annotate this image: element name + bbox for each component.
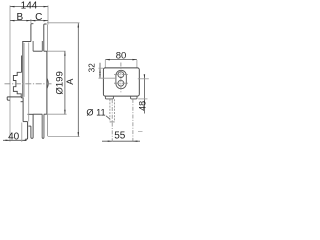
svg-text:Ø 11: Ø 11 xyxy=(86,108,105,118)
pulley: groove right wall top xyxy=(41,41,43,51)
pulley: right outer edge V6 xyxy=(46,51,48,114)
wire: ext 48 bottom xyxy=(138,98,147,100)
svg-text:C: C xyxy=(35,12,42,23)
svg-text:B: B xyxy=(16,12,23,23)
dimension 40 xyxy=(3,139,27,141)
wire: ext of step to dia dim xyxy=(47,50,66,52)
pulley: right flange left edge V5 with top tick xyxy=(44,24,47,51)
hidden hole bottom tick xyxy=(110,121,115,123)
pulley: step H3' bottom right xyxy=(44,113,47,115)
centerline pulley axis xyxy=(5,83,52,85)
bracket left bend xyxy=(7,97,10,100)
dimension B/C line xyxy=(10,20,48,22)
wire: middle extension x=30.9 for B/C xyxy=(30,19,32,24)
hub thin line V2c xyxy=(23,43,25,97)
dimension 32 xyxy=(99,63,101,78)
svg-text:55: 55 xyxy=(114,131,126,142)
svg-text:32: 32 xyxy=(88,63,97,73)
wire: ext 32 bottom xyxy=(99,77,117,79)
bracket plate edge vertical xyxy=(25,122,27,140)
wire: left extension line x=10 xyxy=(9,6,11,142)
hub outer left wall V2a xyxy=(21,56,23,73)
bracket cross edge behind wheel xyxy=(28,113,34,115)
bracket inner step xyxy=(22,97,24,122)
small gray line bottom right xyxy=(138,131,143,133)
wire: ext line x=21.8 bottom xyxy=(21,123,23,142)
centerline hole1 horizontal xyxy=(114,74,128,76)
pulley: right flange right thin edge xyxy=(47,25,49,52)
foot right xyxy=(131,96,137,99)
leader for D11 xyxy=(106,116,110,119)
svg-text:48: 48 xyxy=(137,101,147,111)
wire: ext 80 left xyxy=(104,60,106,68)
svg-text:80: 80 xyxy=(116,50,127,61)
dimension 144 line xyxy=(10,6,48,8)
boss bump on right edge xyxy=(47,78,48,88)
wire: ext line top for A xyxy=(47,22,80,24)
wire: ext of bottom step to dia dim xyxy=(47,113,67,115)
plate outline xyxy=(103,68,139,96)
hub inner wall V2b xyxy=(22,42,24,97)
wire: ext 48 top xyxy=(138,78,149,80)
pulley: left flange inner wall (groove left) xyxy=(32,41,34,51)
svg-text:144: 144 xyxy=(21,0,38,11)
hub small shoulder bottom xyxy=(28,125,31,127)
centerline vertical through holes xyxy=(120,63,122,93)
hub bottom small edge xyxy=(21,101,24,103)
pulley: left flange outer edge V1 with top tick xyxy=(31,24,34,42)
svg-text:A: A xyxy=(65,78,75,85)
wire: ext line bottom for A xyxy=(48,136,80,138)
wire: ext 80 right xyxy=(136,60,138,68)
hidden hole dashed left pair xyxy=(109,99,111,122)
hidden line x=28.7 xyxy=(28,43,30,122)
dimension D199 vertical line xyxy=(64,51,66,114)
centerline second hole xyxy=(132,99,134,142)
dimension 55 xyxy=(102,140,140,142)
pulley: right flange right thin edge bottom xyxy=(47,114,49,136)
centerline first hole xyxy=(111,99,113,141)
centerline hole2 horizontal xyxy=(114,82,128,84)
pulley: right flange bottom closed tip xyxy=(42,114,44,138)
wire: right extension line x=48 (dim 144/C) xyxy=(47,6,49,25)
pulley: step H3 top right xyxy=(44,50,47,52)
hub collar staircase xyxy=(13,72,21,97)
dimension 48 xyxy=(143,75,145,114)
bracket inner corner horizontal xyxy=(23,121,28,123)
pulley: groove floor bottom xyxy=(33,113,42,115)
pulley: top hub shoulder H1 xyxy=(22,41,31,43)
dimension 80 xyxy=(105,59,137,61)
slot obround xyxy=(116,70,126,88)
hole upper xyxy=(118,72,124,78)
svg-text:40: 40 xyxy=(8,131,20,142)
bracket top edge xyxy=(7,96,21,98)
pulley: groove floor top xyxy=(33,50,42,52)
dimension A vertical line xyxy=(77,23,79,137)
foot left xyxy=(105,96,113,99)
svg-text:Ø199: Ø199 xyxy=(55,71,66,94)
pulley: left flange bottom closed tip xyxy=(31,114,33,138)
wire: ext 32 top tick xyxy=(99,67,104,69)
hole lower xyxy=(118,80,124,86)
